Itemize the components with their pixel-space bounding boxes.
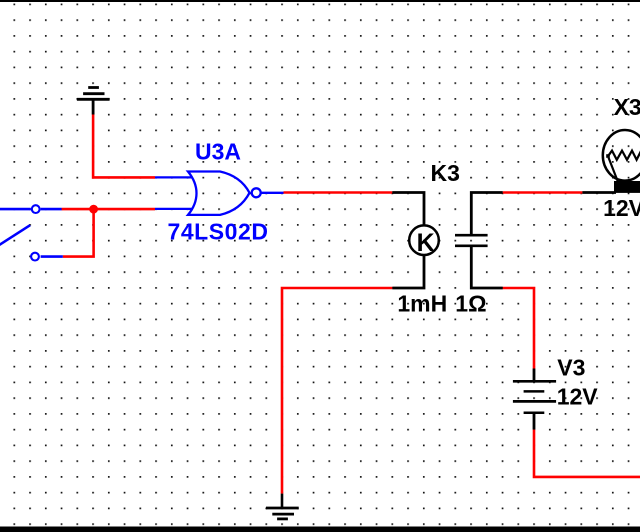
relay K3 contact plate bottom (455, 244, 488, 247)
wire: ground GND1 to gate input A (red) (93, 115, 155, 178)
node junction (red dot) (89, 205, 98, 214)
battery V3 plate short 1 (524, 390, 545, 393)
lamp X3 lead line (609, 158, 619, 183)
wire: contact bottom to battery top (red) (503, 288, 534, 369)
svg-text:1Ω: 1Ω (455, 290, 486, 316)
svg-text:X3: X3 (614, 94, 640, 120)
lamp X3 filament zigzag (608, 151, 640, 160)
battery V3 plate long top (513, 380, 556, 383)
switch pin stub right of bottom circle (blue) (41, 255, 63, 258)
bottom border frame (0, 527, 640, 532)
lamp X3 filament anchor (606, 154, 610, 158)
wire: gate output to relay coil (red) (284, 191, 393, 194)
output inversion bubble (252, 188, 261, 197)
svg-text:74LS02D: 74LS02D (168, 218, 269, 244)
switch lever (blue diagonal, pivot off-screen) (0, 225, 30, 246)
svg-text:K3: K3 (431, 160, 460, 186)
relay K3 coil circle (409, 225, 439, 255)
relay K3 contact plate top (455, 234, 488, 237)
wire: switch top terminal net (blue lead at left edge) (0, 208, 31, 211)
relay K3 coil pin bottom (black) (392, 255, 424, 288)
lamp X3 pin (black) (582, 191, 616, 194)
wire: contact to lamp (red) (503, 191, 583, 194)
wire: battery bottom to right edge (red) (534, 430, 640, 477)
battery V3 plate long 2 (513, 400, 556, 403)
svg-text:V3: V3 (557, 355, 585, 381)
lamp X3 bulb circle (603, 130, 640, 181)
pin 1A (top input) (155, 176, 192, 178)
ground GND2 (bottom, earth ground) (266, 494, 299, 519)
relay K3 coil pin top (black) (392, 193, 424, 226)
svg-text:12V: 12V (557, 384, 599, 410)
pin 1B (bottom input) (155, 208, 192, 210)
wire: junction down to switch bottom terminal (red) (63, 209, 94, 257)
relay K3 contact pin bottom (black) (471, 247, 503, 288)
lamp X3 base rectangle (614, 181, 640, 193)
relay K3 contact pin top (black) (471, 193, 503, 235)
svg-text:1mH: 1mH (397, 290, 447, 316)
svg-text:U3A: U3A (195, 139, 241, 165)
battery V3 top pin (black) (533, 369, 536, 382)
switch pin stub right of top circle (blue) (41, 208, 62, 211)
wire: switch top terminal to gate input B (red) (62, 208, 155, 211)
ground GND1 (top left, flipped earth ground) (77, 88, 110, 115)
svg-text:K: K (417, 229, 435, 257)
battery V3 plate short 2 (524, 411, 545, 414)
switch J? top terminal circle (32, 205, 40, 213)
battery V3 bottom pin (black) (533, 413, 536, 430)
gate body outline (188, 172, 250, 215)
wire: coil bottom rail to ground (red) (282, 288, 392, 494)
switch bottom terminal circle (31, 253, 39, 261)
output pin (blue) (261, 192, 284, 194)
svg-text:12V: 12V (603, 195, 640, 221)
op-amp gate U3A NOR 74LS02D (blue body) (155, 172, 284, 215)
top border frame (0, 0, 640, 2)
